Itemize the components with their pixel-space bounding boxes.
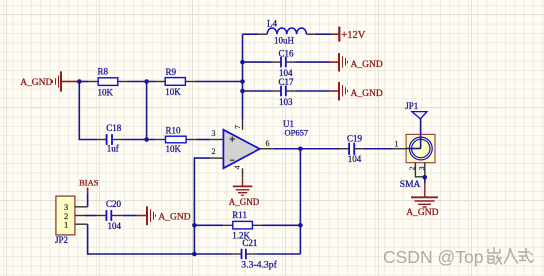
capacitor C20: [97, 199, 123, 231]
wire output feedback rail: [299, 149, 301, 254]
wire C20 to ground: [123, 215, 138, 217]
junction node JP1 ground: [423, 175, 428, 180]
svg-text:A_GND: A_GND: [406, 208, 438, 218]
svg-text:7: 7: [233, 125, 242, 129]
pin 4: [233, 165, 243, 177]
connector JP2: [55, 196, 75, 245]
wire C21 to rail: [257, 253, 300, 255]
junction node R11 left: [192, 223, 197, 228]
power port A_GND C20 row: [137, 206, 155, 225]
svg-text:BIAS: BIAS: [79, 178, 99, 188]
capacitor C17: [271, 77, 296, 107]
JP2 pin 1: [75, 223, 88, 225]
power port BIAS: [79, 178, 99, 194]
wire C17 row: [243, 90, 272, 92]
svg-text:103: 103: [279, 97, 293, 107]
junction node rail R9: [240, 79, 245, 84]
svg-text:A_GND: A_GND: [158, 213, 190, 223]
svg-text:2: 2: [212, 147, 216, 156]
svg-text:A_GND: A_GND: [351, 89, 383, 99]
pin 6: [260, 139, 274, 149]
power port +12V: [331, 27, 366, 42]
svg-text:104: 104: [108, 221, 122, 231]
svg-text:C19: C19: [347, 133, 363, 143]
pin 7: [233, 120, 242, 130]
wire C16 to ground: [296, 61, 331, 63]
svg-text:3: 3: [212, 129, 216, 138]
connector JP1 body: [406, 134, 435, 162]
wire antenna to connector: [420, 119, 422, 135]
svg-text:A_GND: A_GND: [20, 78, 52, 88]
wire C17 to ground: [296, 90, 331, 92]
power port A_GND C16 row: [330, 53, 348, 71]
wire main row left: [78, 81, 89, 83]
watermark glyph ru: [504, 248, 518, 264]
svg-text:1: 1: [64, 220, 68, 230]
capacitor C19: [340, 133, 365, 164]
power port A_GND left: [53, 71, 78, 91]
svg-text:C21: C21: [242, 238, 257, 248]
svg-text:10K: 10K: [166, 144, 182, 154]
JP1 pin 3: [417, 163, 426, 178]
wire bottom rail: [88, 253, 232, 255]
watermark glyph shi: [518, 248, 534, 263]
svg-text:C16: C16: [279, 48, 295, 58]
power rail vertical: [242, 34, 244, 120]
svg-text:10K: 10K: [165, 87, 181, 97]
wire op-amp pin2 loop: [194, 158, 210, 254]
svg-text:CSDN @Top: CSDN @Top: [383, 247, 483, 267]
JP1 pin 1: [393, 139, 407, 148]
svg-text:3: 3: [417, 166, 426, 170]
JP2 pin 3: [75, 206, 88, 208]
wire R9 to power rail: [195, 81, 242, 83]
resistor R11: [223, 210, 262, 240]
wire C18 to R10 node: [122, 139, 156, 141]
svg-text:10uH: 10uH: [274, 36, 295, 46]
wire C16 row: [243, 61, 272, 63]
svg-text:1: 1: [395, 139, 399, 148]
svg-text:2: 2: [408, 166, 417, 170]
junction node C18-R10: [144, 137, 149, 142]
svg-text:SMA: SMA: [400, 180, 421, 190]
junction node rail C16: [240, 60, 245, 65]
svg-text:C18: C18: [106, 123, 122, 133]
wire R11 row left: [194, 224, 223, 226]
svg-text:R9: R9: [166, 67, 177, 77]
svg-text:OP657: OP657: [285, 128, 309, 138]
wire inductor to +12V: [316, 33, 331, 35]
svg-text:JP1: JP1: [405, 101, 418, 111]
svg-text:3.3-4.3pf: 3.3-4.3pf: [241, 259, 277, 270]
svg-text:C20: C20: [106, 199, 122, 209]
svg-text:R10: R10: [166, 126, 182, 136]
svg-text:10K: 10K: [98, 88, 114, 98]
JP1 pin 2: [408, 163, 425, 177]
junction node R11 right: [298, 223, 303, 228]
svg-text:1uf: 1uf: [107, 144, 119, 154]
svg-text:+12V: +12V: [341, 30, 365, 41]
resistor R10: [156, 126, 196, 155]
capacitor C21: [232, 238, 278, 270]
svg-text:4: 4: [233, 165, 242, 169]
wire JP1 to ground: [424, 177, 426, 183]
capacitor C16: [271, 48, 296, 78]
svg-text:104: 104: [348, 154, 362, 164]
resistor R8: [89, 66, 128, 97]
junction node rail C17: [240, 89, 245, 94]
wire pin1 down: [87, 224, 89, 255]
power port A_GND C17 row: [330, 82, 348, 100]
junction node R8-R9: [144, 79, 149, 84]
JP2 pin 2: [75, 215, 85, 217]
pin 2: [210, 147, 224, 158]
svg-text:R11: R11: [232, 210, 247, 220]
svg-text:R8: R8: [98, 66, 109, 76]
svg-text:JP2: JP2: [55, 235, 68, 245]
svg-text:A_GND: A_GND: [351, 60, 383, 70]
wire pin3 to BIAS: [87, 193, 89, 207]
op-amp U1: [223, 119, 308, 168]
wire R10 to op-amp pin3: [196, 139, 210, 141]
resistor R9: [156, 67, 196, 97]
junction node bottom rail: [192, 252, 197, 257]
ground A_GND under JP1: [411, 183, 438, 207]
junction node output: [298, 146, 303, 151]
wire output row: [273, 148, 339, 150]
inductor L4: [243, 18, 316, 45]
watermark glyph qian: [487, 247, 502, 265]
svg-text:L4: L4: [267, 18, 277, 28]
wire drop R8-R9 node: [146, 82, 148, 140]
ground A_GND under op-amp: [233, 177, 253, 195]
capacitor C18: [97, 123, 122, 154]
wire R11 row right: [262, 224, 300, 226]
junction node R8 left: [77, 79, 82, 84]
svg-text:C17: C17: [279, 77, 295, 87]
wire pin2 to C20: [85, 215, 97, 217]
svg-text:A_GND: A_GND: [229, 197, 260, 207]
wire between R8 and R9: [128, 81, 156, 83]
antenna JP1: [412, 112, 427, 119]
wire drop to C18: [79, 82, 97, 140]
pin 3: [210, 129, 224, 140]
wire C19 to JP1: [364, 148, 393, 150]
svg-text:6: 6: [266, 139, 270, 148]
